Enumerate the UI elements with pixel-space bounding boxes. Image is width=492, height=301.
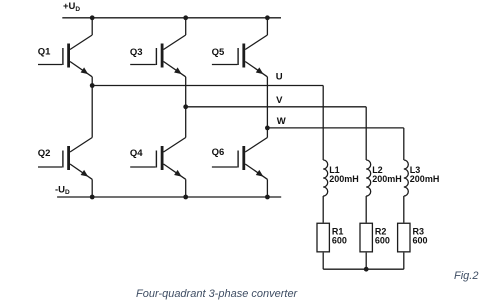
inductor L3 200mH	[404, 160, 440, 196]
wire R3 to star point	[403, 253, 405, 270]
svg-text:Q6: Q6	[212, 147, 225, 158]
svg-text:600: 600	[375, 236, 390, 246]
junction +Ud / Q1	[90, 15, 95, 20]
wire Q5 collector drop	[266, 18, 268, 35]
inductor L1 200mH	[323, 160, 359, 196]
wire Q1 collector drop	[91, 18, 93, 35]
svg-text:Q2: Q2	[38, 148, 51, 159]
junction -Ud / Q2	[90, 195, 95, 200]
wire Q6 emitter to -Ud	[266, 179, 268, 197]
wire Q2 emitter to -Ud	[91, 179, 93, 197]
resistor R1 600	[317, 223, 347, 252]
svg-text:Q1: Q1	[38, 46, 51, 57]
transistor Q5 (IGBT)	[212, 35, 268, 77]
svg-text:Q5: Q5	[212, 47, 225, 58]
svg-text:200mH: 200mH	[410, 174, 440, 184]
svg-text:Q3: Q3	[130, 47, 143, 58]
wire -Ud bottom rail	[57, 196, 281, 198]
svg-text:-UD: -UD	[55, 184, 70, 196]
wire Q4 emitter to -Ud	[185, 179, 187, 197]
wire star point join	[323, 268, 404, 270]
transistor Q4 (IGBT)	[130, 138, 186, 180]
wire Q3 collector drop	[185, 18, 187, 35]
wire Q5 emitter to node W	[266, 77, 268, 128]
wire node W to Q6 collector	[266, 128, 268, 138]
wire R1 to star point	[322, 253, 324, 270]
svg-text:U: U	[276, 72, 283, 83]
wire phase V rail	[186, 106, 367, 108]
junction star point	[364, 267, 369, 272]
transistor Q1 (IGBT)	[38, 35, 92, 77]
wire node U to Q2 collector	[91, 86, 93, 138]
resistor R3 600	[398, 223, 428, 252]
label Fig.2	[454, 270, 478, 282]
node V junction	[183, 104, 188, 109]
caption	[136, 288, 297, 300]
wire node V to Q4 collector	[185, 107, 187, 138]
wire L3 branch drop	[403, 128, 405, 160]
junction +Ud / Q5	[265, 15, 270, 20]
wire L1-R1 link	[322, 196, 324, 223]
svg-text:W: W	[277, 116, 286, 127]
svg-text:Q4: Q4	[130, 148, 143, 159]
wire Q1 emitter to node U	[91, 77, 93, 86]
wire phase U rail	[92, 85, 323, 87]
transistor Q2 (IGBT)	[38, 138, 92, 180]
wire L2 branch drop	[365, 107, 367, 160]
wire L1 branch drop	[322, 86, 324, 161]
junction -Ud / Q4	[183, 195, 188, 200]
transistor Q6 (IGBT)	[212, 138, 268, 180]
svg-text:+UD: +UD	[63, 1, 80, 13]
node W junction	[265, 126, 270, 131]
wire phase W rail	[267, 127, 403, 129]
transistor Q3 (IGBT)	[130, 35, 186, 77]
junction -Ud / Q6	[265, 195, 270, 200]
wire Q3 emitter to node V	[185, 77, 187, 107]
wire R2 to star point	[365, 253, 367, 270]
wire L2-R2 link	[365, 196, 367, 223]
svg-text:V: V	[276, 95, 283, 106]
svg-text:200mH: 200mH	[372, 174, 402, 184]
svg-text:600: 600	[332, 236, 347, 246]
svg-text:200mH: 200mH	[329, 174, 359, 184]
wire +Ud top rail	[62, 17, 281, 19]
resistor R2 600	[360, 223, 390, 252]
junction +Ud / Q3	[183, 15, 188, 20]
inductor L2 200mH	[366, 160, 402, 196]
svg-text:600: 600	[413, 236, 428, 246]
wire L3-R3 link	[403, 196, 405, 223]
node U junction	[90, 83, 95, 88]
